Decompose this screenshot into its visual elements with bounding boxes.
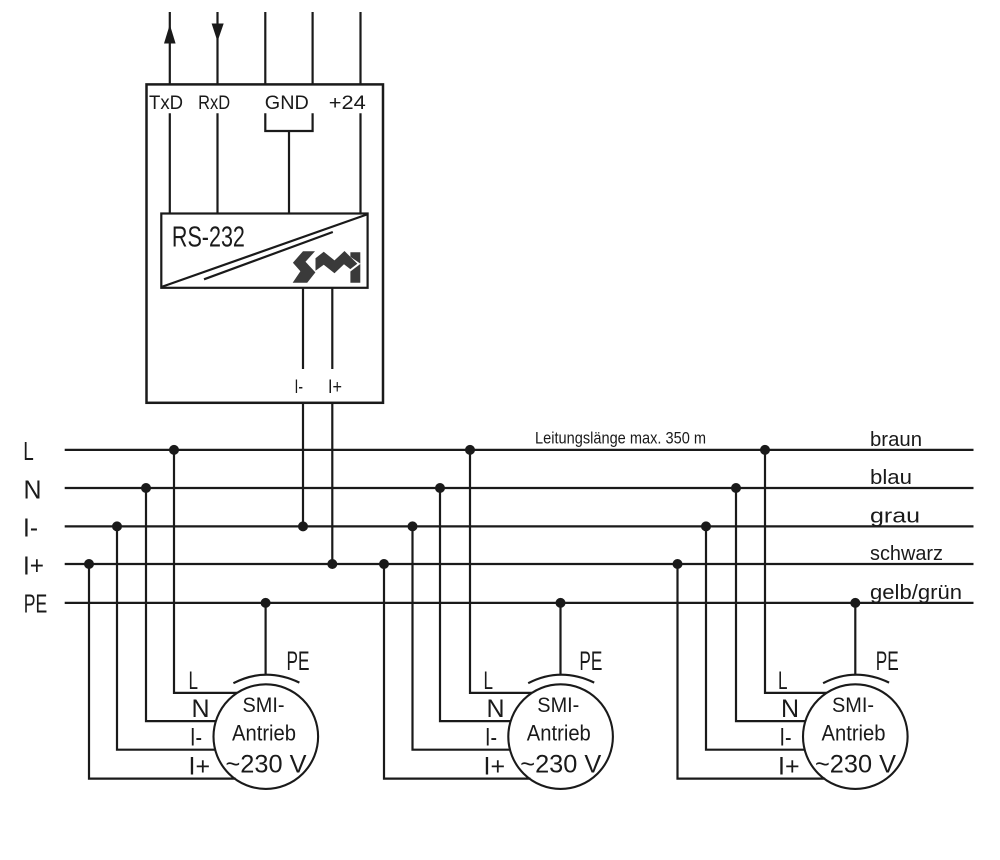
svg-text:TxD: TxD [149,93,183,114]
RS-232 converter inner box U1 [161,214,367,288]
wire I- below box to bus [302,403,304,527]
svg-text:N: N [487,695,505,723]
wire GND pin A above box [264,12,266,84]
arrow TxD (up) [164,25,176,44]
wire TxD pin above box [169,12,171,84]
node Iplus-M1 [84,559,94,569]
wire I- drop M1 [117,526,216,749]
wire I+ drop M2 [384,564,530,779]
svg-text:N: N [781,695,799,723]
wire RxD inside box [216,113,218,213]
wire I- drop M3 [706,526,805,749]
svg-text:L: L [484,667,494,695]
node Iplus-U1 [327,559,337,569]
motor 1 [89,450,318,789]
wire PE drop M3 [854,603,856,674]
diagonal second line of U1 [204,232,333,279]
svg-text:SMI-: SMI- [832,694,874,717]
node PE-M2 [556,598,566,608]
node Iminus-M1 [112,521,122,531]
svg-text:~230 V: ~230 V [226,751,307,779]
motor circle M2 [508,684,613,789]
svg-text:Antrieb: Antrieb [527,720,591,745]
node N-M1 [141,483,151,493]
wire GND center drop [288,131,290,214]
PE arc M1 [233,675,299,684]
wire GND pin B above box [312,12,314,84]
wire RxD pin above box [216,12,218,84]
wire I- drop M2 [413,526,511,749]
motor circle M3 [803,684,908,789]
svg-text:grau: grau [870,505,920,527]
svg-text:L: L [189,667,199,695]
arrow RxD (down) [212,24,224,42]
motor circle M1 [213,684,318,789]
SMI logo [293,251,361,283]
wire I+ drop M1 [89,564,236,779]
svg-text:braun: braun [870,429,922,451]
svg-text:I-: I- [780,724,792,752]
node L-M1 [169,445,179,455]
svg-text:PE: PE [579,646,602,676]
svg-text:I-: I- [485,724,497,752]
svg-text:I+: I+ [23,550,44,580]
svg-text:I+: I+ [778,753,800,781]
PE arc M3 [823,675,889,684]
svg-text:~230 V: ~230 V [815,751,896,779]
node L-M2 [465,445,475,455]
bus N [65,487,974,489]
interface outer box [147,84,384,402]
wire N drop M1 [146,488,216,721]
node Iminus-M3 [701,521,711,531]
svg-text:PE: PE [876,646,899,676]
motor 2 [384,450,613,789]
wire +24 pin above box [359,12,361,84]
logo letter S [293,251,316,283]
svg-text:Leitungslänge max. 350 m: Leitungslänge max. 350 m [535,429,706,448]
junction dots [84,445,860,608]
svg-text:+24: +24 [329,93,366,114]
diagonal main line of U1 [162,215,366,287]
bus lines [65,450,974,603]
node L-M3 [760,445,770,455]
wire I+ below box to bus [331,403,333,564]
wire I+ from U1 to label [331,288,333,369]
svg-text:Antrieb: Antrieb [232,720,296,745]
node Iplus-M3 [673,559,683,569]
wire +24 inside box [359,113,361,213]
svg-text:I+: I+ [328,377,342,398]
node N-M3 [731,483,741,493]
node Iminus-M2 [408,521,418,531]
logo letter I bottom piece [350,264,360,283]
bus PE [65,602,974,604]
svg-text:N: N [24,474,42,504]
logo letter I top piece [350,252,360,263]
svg-text:RxD: RxD [198,93,230,114]
svg-text:L: L [23,436,34,466]
svg-text:N: N [192,695,210,723]
svg-text:RS-232: RS-232 [172,222,245,254]
bus I+ [65,563,974,565]
node N-M2 [435,483,445,493]
svg-text:I+: I+ [484,753,506,781]
svg-text:SMI-: SMI- [243,694,285,717]
logo letter M [316,251,358,273]
PE arc M2 [528,675,594,684]
svg-text:PE: PE [24,589,48,619]
wire N drop M3 [736,488,805,721]
wire PE drop M2 [559,603,561,674]
bus I- [65,525,974,527]
svg-text:Antrieb: Antrieb [822,720,886,745]
GND bracket [265,113,312,131]
svg-text:GND: GND [265,93,309,114]
svg-text:SMI-: SMI- [537,694,579,717]
motor 3 [678,450,908,789]
node Iminus-U1 [298,521,308,531]
svg-text:I-: I- [23,513,38,543]
svg-text:gelb/grün: gelb/grün [870,582,962,604]
svg-text:PE: PE [287,646,310,676]
node PE-M1 [261,598,271,608]
node Iplus-M2 [379,559,389,569]
svg-text:I+: I+ [189,753,211,781]
svg-text:blau: blau [870,467,912,489]
wire PE drop M1 [265,603,267,674]
svg-text:I-: I- [190,724,202,752]
wire I- from U1 to label [302,288,304,369]
svg-text:schwarz: schwarz [870,543,943,565]
wire L drop M2 [470,450,532,693]
bus L [65,449,974,451]
wire L drop M1 [174,450,237,693]
wire I+ drop M3 [678,564,826,779]
wire L drop M3 [765,450,827,693]
wire TxD inside box [169,113,171,213]
svg-text:L: L [778,667,788,695]
svg-text:~230 V: ~230 V [520,751,601,779]
svg-text:I-: I- [295,377,304,398]
wire N drop M2 [440,488,511,721]
node PE-M3 [850,598,860,608]
